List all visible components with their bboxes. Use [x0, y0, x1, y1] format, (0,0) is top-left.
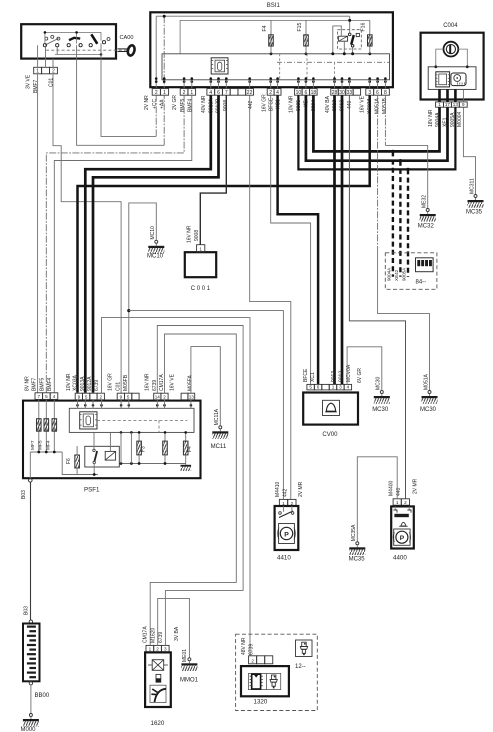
screened box 12-- (dashed) [236, 634, 318, 710]
svg-text:1320: 1320 [254, 699, 268, 706]
C001 pin cell 1 [197, 245, 205, 252]
svg-text:22: 22 [247, 90, 253, 96]
BSI internal supply rail [156, 15, 350, 17]
PSF1 fuse MF5 [45, 399, 47, 452]
wire BMF4: BSI to PSF1-4 [54, 95, 192, 393]
svg-text:9013: 9013 [331, 371, 337, 382]
BSI relay contact [349, 16, 351, 33]
svg-text:BSI1: BSI1 [267, 3, 281, 9]
svg-text:MC32: MC32 [418, 224, 435, 230]
wire 6739: PSF1-2 to 1320 [102, 318, 251, 656]
svg-text:9005A: 9005A [402, 267, 407, 281]
BSI fuse-to-band junction dots [270, 52, 273, 55]
1620 clutch-switch symbol (X box) [152, 660, 164, 671]
svg-text:3V BA: 3V BA [174, 626, 180, 641]
svg-text:1: 1 [36, 69, 39, 75]
BSI band dashed verticals [279, 54, 281, 80]
svg-text:M05FB: M05FB [123, 374, 129, 391]
svg-text:BMF7: BMF7 [32, 377, 38, 391]
ground MC30 left (horn) [380, 391, 383, 394]
PSF1 connector symbol [80, 412, 97, 429]
svg-text:1: 1 [199, 247, 202, 252]
ground M000 [29, 714, 32, 717]
svg-text:MC11A: MC11A [214, 408, 220, 425]
wire BMF5: BSI to PSF1-5 [46, 95, 184, 393]
PSF1 fuse F6 [76, 446, 78, 455]
svg-text:1: 1 [190, 90, 193, 96]
svg-text:XC1: XC1 [310, 372, 316, 382]
BSI band-bottom connection dots [155, 77, 158, 80]
svg-text:MF5: MF5 [38, 440, 44, 450]
svg-text:CM17A: CM17A [143, 626, 149, 643]
battery junction box BB00 [29, 620, 32, 623]
svg-text:C 0 0 1: C 0 0 1 [191, 286, 211, 292]
C004 reader coil symbol [451, 73, 466, 86]
4400 brake warning symbol [394, 529, 410, 545]
wire 9004/9004A: BSI to C004 (thick) [313, 95, 439, 151]
C004 pin cells 1/17/13/9 [436, 102, 444, 107]
svg-text:3: 3 [339, 385, 342, 390]
screened branch XE to 84-- (dashed thick) [399, 159, 402, 162]
svg-text:MC35: MC35 [349, 557, 366, 563]
svg-text:M051A: M051A [423, 373, 429, 390]
1320 injector-driver symbol [271, 675, 276, 679]
svg-text:BFCE: BFCE [303, 368, 309, 382]
junction M4410 on M05FB [127, 309, 130, 312]
svg-text:M1620: M1620 [150, 627, 156, 643]
svg-text:2: 2 [52, 69, 55, 75]
4410 switch contact symbol [279, 512, 282, 515]
svg-text:3: 3 [368, 90, 371, 96]
wire M0004: C004 to ground MC35 [463, 107, 475, 194]
CA00 switch contact 3 (thick diagonal) [91, 34, 97, 44]
CA00 connector cells 1,.,2 [34, 67, 42, 74]
svg-text:F4: F4 [262, 25, 268, 31]
svg-text:M4400: M4400 [389, 480, 395, 496]
CA00 lower internal link [55, 53, 101, 55]
svg-text:33: 33 [347, 90, 353, 96]
svg-text:9013A: 9013A [80, 376, 86, 391]
ground MC30 right [428, 391, 431, 394]
svg-text:MC10: MC10 [147, 254, 164, 260]
svg-text:16V GR: 16V GR [107, 373, 113, 391]
ground MM01 [188, 658, 191, 661]
BSI fuse F15 [305, 20, 307, 53]
wire 442: BSI to 4410-2 [250, 95, 291, 499]
svg-text:1: 1 [438, 102, 441, 107]
svg-text:14: 14 [155, 395, 161, 400]
4400 level contact symbol [394, 506, 396, 510]
svg-text:PSF1: PSF1 [84, 487, 100, 494]
BSI dash-dot drop to pin +AA [163, 16, 165, 88]
svg-text:48V NR: 48V NR [241, 637, 247, 655]
svg-text:MMO1: MMO1 [180, 678, 199, 684]
svg-text:3V VE: 3V VE [26, 74, 32, 89]
svg-text:28: 28 [332, 90, 338, 96]
svg-text:F15: F15 [297, 22, 303, 31]
svg-text:ME01: ME01 [182, 649, 188, 662]
PSF1 fuse F4b [185, 432, 187, 441]
svg-text:MF4: MF4 [46, 440, 52, 450]
wire +CC: CA00 sw3 to BSI +CC [101, 59, 156, 137]
svg-text:2V MR: 2V MR [298, 481, 304, 497]
BSI1 box [150, 12, 393, 87]
svg-text:+AA: +AA [160, 99, 166, 109]
svg-text:9012: 9012 [339, 371, 345, 382]
PSF1 pin cells 7/5/4 [35, 393, 43, 400]
wire XE/XE1: BSI to C004 (thick) [306, 95, 448, 161]
PSF1 pin cells ./13 [181, 393, 188, 400]
ignition switch CA00 box [21, 24, 116, 58]
svg-text:CA00: CA00 [120, 35, 134, 41]
wire +AA: CA00 sw2 to BSI +AA [77, 59, 165, 146]
wire XC03A: BSI to PSF1 long bus (thick) [78, 95, 370, 393]
svg-text:16V VE: 16V VE [169, 373, 175, 391]
svg-text:18: 18 [311, 90, 317, 96]
wire BMF7: CA00-1 to PSF1-7 [37, 74, 39, 393]
PSF1 band dashed link [97, 419, 187, 421]
PSF1 relay coil [105, 451, 115, 460]
screened branch 9004 to 84-- (dashed thick) [391, 150, 394, 153]
injection ECU 1320 box [241, 666, 289, 696]
BSI pin group 2/4 cells [267, 89, 274, 96]
svg-text:6739: 6739 [249, 644, 255, 655]
CA00 switch contact 2 (thick bar) [69, 38, 80, 40]
svg-text:2: 2 [183, 90, 186, 96]
PSF1 fuse F5 [164, 432, 166, 441]
PSF1 MF link rail to B03 [30, 451, 62, 453]
mechanical link to key (dashed) [46, 49, 127, 51]
svg-text:2: 2 [251, 659, 254, 664]
svg-text:9: 9 [462, 102, 465, 107]
4400 float symbol [401, 522, 406, 526]
PSF1 internal bus band [69, 408, 194, 432]
svg-text:6739: 6739 [94, 380, 100, 391]
svg-text:BB00: BB00 [35, 693, 50, 699]
BSI relay coil [339, 36, 348, 41]
PSF1 terminal B03 [29, 479, 33, 483]
wire M051B: BSI to ground MC32 [384, 95, 386, 145]
svg-text:5: 5 [127, 395, 130, 400]
svg-text:6: 6 [317, 385, 320, 390]
svg-text:16V NR: 16V NR [187, 225, 193, 243]
PSF1 relay contact [93, 449, 95, 451]
PSF1 fuse MF7 [38, 399, 40, 452]
svg-text:MC30: MC30 [376, 376, 382, 390]
1620 column stalk symbol [150, 685, 166, 702]
BSI inner frame top [180, 20, 370, 53]
C004 pin stubs [438, 89, 441, 102]
screened connector box 84-- [385, 253, 437, 289]
svg-text:40V BA: 40V BA [325, 95, 331, 113]
wire 9013: BSI to CV00-1 (thick) [333, 95, 336, 384]
svg-text:2V MR: 2V MR [412, 478, 418, 494]
BSI left rail drop to pin +CC [155, 16, 157, 88]
svg-text:6: 6 [304, 90, 307, 96]
key symbol [118, 48, 128, 50]
BSI relay K (dashed box) [337, 30, 361, 49]
svg-text:BMF5: BMF5 [39, 377, 45, 391]
handbrake switch 4410 box [275, 506, 299, 550]
brake fluid switch 4400 box [391, 506, 414, 548]
svg-text:5: 5 [309, 385, 312, 390]
svg-text:4: 4 [347, 385, 350, 390]
BSI pin group 10/6/18 cells [295, 89, 303, 96]
wire M4410: 4410-1 to junction on M05FB [129, 311, 284, 500]
wire M05FA: PSF1-13 to ground MC11 [191, 347, 220, 426]
PSF1 internal ground [185, 464, 187, 465]
CA00 switch contact 1 [45, 38, 59, 45]
svg-text:2: 2 [156, 647, 159, 652]
ground MC32 [426, 209, 429, 212]
wire M1620: 1620-2 to ground MM01 [158, 598, 190, 657]
svg-text:3: 3 [164, 647, 167, 652]
BSI pin group BMF cells [180, 89, 188, 96]
svg-text:BMF5: BMF5 [180, 98, 186, 112]
wire XC1: BSI to CV00-6 (thick) [278, 95, 319, 384]
svg-text:9: 9 [120, 395, 123, 400]
svg-text:XE42: XE42 [394, 269, 399, 281]
svg-text:2: 2 [404, 500, 407, 505]
screened branch 9005 to 84-- (dashed thick) [406, 168, 409, 171]
svg-text:1: 1 [396, 500, 399, 505]
steering column control 1620 box [145, 652, 171, 707]
svg-text:7: 7 [38, 394, 41, 399]
svg-text:10: 10 [296, 90, 302, 96]
BSI fuse F4 [270, 20, 272, 53]
svg-text:10V NR: 10V NR [66, 373, 72, 391]
wire MCV0A: CV00-4 to ground MC30 [347, 347, 382, 391]
svg-text:C004: C004 [443, 23, 458, 29]
svg-text:13: 13 [189, 395, 195, 400]
BSI pin group 4/6/7 + 22 cells [207, 89, 215, 96]
1620 pin cells 1/2/3 [146, 645, 154, 651]
svg-text:5: 5 [85, 395, 88, 400]
PSF1 band top connection dots [76, 404, 79, 407]
C004 inner unit box [428, 67, 476, 90]
svg-text:BMF4: BMF4 [187, 98, 193, 112]
PSF1 fuse MF4 [53, 399, 55, 452]
PSF1 band bottom junction dots [120, 431, 123, 434]
svg-text:F4: F4 [187, 446, 193, 452]
svg-text:440: 440 [347, 100, 353, 109]
svg-text:8: 8 [384, 90, 387, 96]
svg-text:2V GR: 2V GR [172, 95, 178, 110]
svg-text:2: 2 [269, 90, 272, 96]
antenna unit C004 box [421, 33, 484, 100]
svg-text:MC11: MC11 [211, 444, 227, 450]
wire 9005/9005A: BSI to C004 (thick) [298, 95, 455, 169]
stub wires CA00 box to connector [37, 59, 39, 68]
svg-text:2: 2 [99, 395, 102, 400]
svg-text:MC10: MC10 [150, 226, 156, 240]
svg-text:M000: M000 [21, 727, 37, 732]
svg-text:CV00: CV00 [322, 432, 338, 438]
svg-text:C01: C01 [115, 382, 121, 391]
1320 inner container [248, 673, 280, 689]
BSI pin group 3/6/8 cells [366, 89, 374, 96]
svg-text:MC35: MC35 [466, 210, 483, 216]
CA00 internal common rail [45, 31, 101, 33]
svg-text:1: 1 [149, 647, 152, 652]
PSF1 relay feeds [93, 432, 95, 449]
BSI relay coil feed loop [333, 26, 342, 54]
injection ECU 1320 pin cells [249, 656, 257, 664]
svg-text:+CC: +CC [152, 98, 158, 109]
svg-text:F6: F6 [66, 458, 72, 464]
C004 transponder symbol [436, 72, 450, 87]
PSF1 pin cells 9/5/./2 [75, 393, 82, 400]
PSF1 fuse F1 [138, 432, 140, 441]
12-- injector symbol top [296, 640, 313, 657]
1320 microcontroller symbol [252, 674, 261, 689]
svg-text:1: 1 [163, 90, 166, 96]
svg-text:84--: 84-- [416, 280, 427, 286]
PSF1 pin cells 14/2 [154, 393, 161, 400]
C004 key barrel circle [444, 42, 459, 57]
handbrake switch 4410 pin cells 1/2 [279, 499, 287, 506]
svg-text:8V NR: 8V NR [24, 376, 30, 391]
1620 sensor symbol [156, 674, 161, 682]
BSI connector symbol [211, 58, 228, 74]
wire 440: BSI to 4400-2 [349, 95, 405, 499]
brake fluid switch 4400 pin cells 1/2 [393, 499, 401, 505]
svg-text:B03: B03 [21, 490, 27, 499]
svg-text:ME32: ME32 [422, 195, 428, 208]
svg-text:M4410: M4410 [275, 481, 281, 497]
BSI pin group 28/30/33 cells [331, 89, 338, 96]
svg-text:6: 6 [376, 90, 379, 96]
PSF1 pin cells 9/5/. [117, 393, 124, 400]
wire 9012: BSI to CV00-3 (thick) [341, 95, 344, 384]
svg-text:9008: 9008 [194, 230, 200, 241]
engine fusebox PSF1 box [23, 401, 201, 479]
svg-text:30: 30 [339, 90, 345, 96]
svg-text:1: 1 [332, 385, 335, 390]
wire 9008: BSI to C001 [200, 95, 226, 245]
BSI band dash-dot line [277, 61, 390, 63]
svg-text:5: 5 [45, 394, 48, 399]
C004 barrel wires to reader [436, 49, 444, 67]
svg-text:4410: 4410 [277, 555, 291, 562]
svg-text:B03: B03 [24, 606, 30, 615]
svg-text:9012A: 9012A [87, 376, 93, 391]
svg-text:7: 7 [225, 90, 228, 96]
svg-text:17: 17 [445, 102, 451, 107]
horn unit CV00 box [303, 393, 358, 425]
PSF1 relay box [85, 446, 120, 467]
svg-text:2: 2 [163, 395, 166, 400]
svg-text:MC311: MC311 [469, 178, 475, 194]
PSF1 internal bottom rail [121, 463, 186, 465]
svg-text:6V GR: 6V GR [357, 368, 363, 383]
ground MC10 [155, 240, 158, 243]
svg-text:BFCE: BFCE [269, 97, 275, 111]
wire BB00 to ground M000 [29, 682, 32, 685]
svg-text:6: 6 [217, 90, 220, 96]
wire B03: PSF1 to battery BB00 [30, 482, 32, 620]
svg-text:18V NR: 18V NR [428, 109, 434, 127]
wire 9012B: BSI to PSF1 (thick) [93, 95, 219, 393]
svg-text:16V GR: 16V GR [261, 94, 267, 112]
wire BFCE: BSI to CV00-5 [271, 95, 311, 384]
svg-text:4: 4 [276, 90, 279, 96]
wire CM17A: PSF1-2 to 1620-1 [150, 334, 236, 645]
svg-text:40V NR: 40V NR [201, 95, 207, 113]
BB00 plates [27, 626, 36, 628]
svg-text:P: P [284, 531, 289, 538]
svg-text:2V NR: 2V NR [144, 95, 150, 110]
ground MC35 top right [474, 195, 477, 198]
svg-text:12--: 12-- [295, 664, 306, 670]
svg-text:16V NR: 16V NR [145, 373, 151, 391]
svg-text:9: 9 [78, 395, 81, 400]
BSI pin stub wires band to cells [183, 80, 185, 89]
wire 9013A: BSI to PSF1 (thick) [85, 95, 211, 393]
84-- connector symbol [416, 258, 434, 272]
BSI fuse F16 [369, 20, 371, 53]
svg-text:MF7: MF7 [30, 440, 36, 450]
svg-text:MC30: MC30 [372, 407, 389, 413]
svg-text:6739: 6739 [158, 632, 164, 643]
svg-text:M0004: M0004 [457, 111, 463, 127]
svg-text:MC30: MC30 [420, 407, 437, 413]
ground MC35A [356, 542, 359, 545]
wire M4400: 4400-1 to ground MC35A [357, 457, 397, 542]
svg-text:9004A: 9004A [386, 267, 391, 281]
svg-text:2: 2 [155, 90, 158, 96]
CV00 pin cells 5/6/./1/3/4 [307, 384, 314, 390]
svg-text:MC35A: MC35A [351, 524, 357, 541]
CV00 bell symbol [323, 400, 340, 415]
svg-text:1620: 1620 [151, 720, 165, 727]
BSI internal bus band [162, 54, 390, 80]
svg-text:4400: 4400 [393, 555, 407, 562]
svg-text:BMF4: BMF4 [47, 377, 53, 391]
BSI relay coil return [343, 41, 345, 54]
svg-text:4: 4 [53, 394, 56, 399]
svg-text:4: 4 [209, 90, 212, 96]
wire M05FB: PSF1-5 to ground MC10 [129, 203, 157, 394]
wire M051A: BSI to ground MC30 right [377, 95, 379, 250]
wire C01: CA00-2 to PSF1-9 via jog [53, 74, 121, 394]
ground MC11 [219, 426, 222, 429]
diagnostic socket C001 box [185, 252, 216, 277]
4410 brake warning symbol [279, 524, 295, 544]
svg-text:13: 13 [453, 102, 459, 107]
svg-text:442: 442 [282, 488, 288, 497]
BSI pin group +CC/+AA cells [152, 89, 160, 96]
svg-text:XC03A: XC03A [73, 374, 79, 391]
svg-text:10V NR: 10V NR [289, 95, 295, 113]
svg-text:F3: F3 [141, 446, 147, 452]
svg-text:442: 442 [248, 100, 254, 109]
svg-text:16V VE: 16V VE [359, 95, 365, 113]
wire 6739: PSF1-14 to 1620-3 [157, 326, 243, 646]
svg-text:P: P [400, 535, 405, 542]
